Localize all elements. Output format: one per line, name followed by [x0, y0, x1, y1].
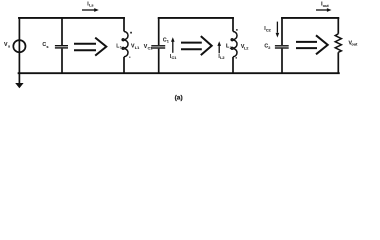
svg-text:1: 1: [167, 40, 169, 44]
svg-text:L2: L2: [244, 47, 248, 51]
svg-text:out: out: [323, 4, 330, 8]
svg-text:C1: C1: [148, 46, 153, 50]
svg-text:C1: C1: [172, 56, 177, 60]
svg-text:1: 1: [120, 46, 122, 50]
svg-text:Ls: Ls: [89, 4, 93, 8]
svg-text:s: s: [8, 45, 10, 49]
svg-text:2: 2: [268, 46, 270, 50]
svg-text:s: s: [46, 45, 48, 49]
svg-text:L1: L1: [135, 46, 139, 50]
svg-text:C2: C2: [266, 28, 271, 32]
svg-text:(a): (a): [175, 94, 183, 101]
svg-text:out: out: [351, 43, 358, 47]
svg-text:2: 2: [230, 46, 232, 50]
svg-text:L2: L2: [220, 56, 224, 60]
